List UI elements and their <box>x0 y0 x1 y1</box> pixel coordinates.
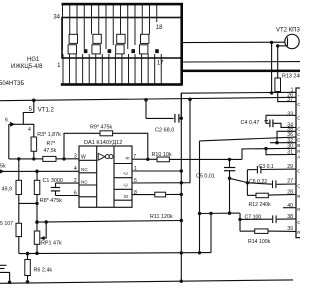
IC pin 40 stub <box>283 207 296 209</box>
long vertical x=181 <box>180 93 182 281</box>
svg-text:C: C <box>297 169 300 175</box>
resistor R13 240 <box>275 78 281 92</box>
svg-text:DA1 К140УД12: DA1 К140УД12 <box>84 140 122 146</box>
resistor R8* 475k chain <box>36 171 38 180</box>
svg-text:R13 240: R13 240 <box>282 74 300 80</box>
svg-text:NC: NC <box>81 167 88 172</box>
svg-text:17: 17 <box>157 61 164 67</box>
resistor R12 240k to pin 28 <box>247 194 256 196</box>
svg-text:47,5k: 47,5k <box>44 148 57 154</box>
bottom bus <box>0 280 293 283</box>
node VT2 drain branch <box>270 41 273 44</box>
C4 0,47 network to pins 33/34 <box>266 115 296 123</box>
svg-text:R: R <box>297 230 300 236</box>
transistor VT2 КП303 <box>285 34 299 48</box>
svg-text:C7 100: C7 100 <box>245 214 262 220</box>
node on pin 1 line <box>270 91 273 94</box>
IC internal labels (cut at edge) <box>297 94 302 237</box>
svg-text:3: 3 <box>74 154 77 160</box>
svg-text:←: ← <box>297 94 300 99</box>
svg-text:C: C <box>297 102 300 108</box>
svg-text:IO: IO <box>124 194 129 199</box>
DA1 pin1 line to x181 <box>132 170 181 172</box>
node VT2 source branch <box>276 44 279 47</box>
svg-text:C: C <box>297 127 300 133</box>
svg-text:R7*: R7* <box>47 141 56 147</box>
IC right pin digits <box>287 111 293 232</box>
svg-text:R: R <box>297 207 300 213</box>
svg-text:C6 0,22: C6 0,22 <box>249 179 267 185</box>
wire VT2 drain down to IC pin 1 line <box>271 42 273 93</box>
svg-text:RP1 47k: RP1 47k <box>41 241 62 247</box>
capacitor C2 68,0 <box>146 100 181 123</box>
svg-text:38: 38 <box>287 214 293 220</box>
display HG1 top feed bus bar <box>62 3 184 6</box>
C7 R14 network <box>239 213 241 231</box>
svg-text:C3 0,1: C3 0,1 <box>259 164 274 170</box>
node VT1.2 drain on bus <box>32 99 36 103</box>
svg-text:C: C <box>297 116 300 122</box>
gate arrowhead <box>10 122 15 127</box>
branch vertical from bus x=190 <box>188 98 192 102</box>
svg-text:R12 240k: R12 240k <box>249 202 272 208</box>
capacitor C6 0,22 to pin 27 <box>247 183 271 184</box>
wire from edge to bottom bus <box>0 272 10 282</box>
svg-text:R: R <box>297 149 300 155</box>
svg-text:5k: 5k <box>0 164 6 170</box>
svg-text:C5 0,01: C5 0,01 <box>196 173 215 179</box>
resistor R6 2,4k <box>27 254 29 260</box>
svg-text:39: 39 <box>287 226 293 232</box>
wires from top bus into display <box>63 5 157 50</box>
svg-text:29: 29 <box>287 164 293 170</box>
big IC left edge (cut off at right) <box>296 88 300 238</box>
svg-text:NC: NC <box>81 179 88 184</box>
main long bus to IC pin 26 <box>0 97 296 100</box>
svg-text:C: C <box>297 132 300 138</box>
resistor R10 10k <box>157 157 169 162</box>
svg-text:m: m <box>126 157 130 162</box>
svg-text:4: 4 <box>74 166 77 172</box>
svg-text:27: 27 <box>287 179 293 185</box>
C3 C6 R12 network <box>246 170 248 196</box>
R9 feedback loop <box>64 133 148 159</box>
svg-text:R8* 475k: R8* 475k <box>40 198 62 204</box>
DA1 pin2 line <box>56 182 80 184</box>
wire display edge to VT2 gate <box>183 41 285 43</box>
capacitor C7 100 to pin 38 <box>240 218 272 220</box>
svg-text:C2 68,0: C2 68,0 <box>155 128 174 134</box>
svg-text:49,9: 49,9 <box>2 187 13 193</box>
display bottom bus bar <box>61 83 183 86</box>
wire VT2 source down to R13 <box>277 46 279 78</box>
link pin30 to pin31 <box>266 149 296 155</box>
svg-text:A: A <box>297 155 300 161</box>
DA1 pin4 line with edge arrow <box>0 170 79 172</box>
transistor VT1.2 (1/2 К504НТ3Б) <box>9 100 34 159</box>
capacitor C1 3000 <box>51 183 60 195</box>
resistor R7* 47,5k <box>43 156 56 161</box>
svg-text:-U: -U <box>123 183 128 188</box>
svg-text:37: 37 <box>287 97 293 103</box>
svg-text:C1 3000: C1 3000 <box>43 178 63 184</box>
svg-text:C4 0,47: C4 0,47 <box>241 120 260 126</box>
svg-text:R14 100k: R14 100k <box>248 239 271 245</box>
svg-text:C: C <box>297 220 300 226</box>
svg-text:5 107: 5 107 <box>0 221 13 227</box>
svg-text:28: 28 <box>287 190 293 196</box>
display HG1 body ИЖКЦ5-4/8 <box>62 18 182 59</box>
supply symbol at left edge (cut) <box>0 264 7 266</box>
bus y=213 <box>200 212 240 214</box>
display right edge thick lead <box>180 3 183 85</box>
svg-text:R10 10k: R10 10k <box>152 152 172 158</box>
resistor R5 107 chain <box>18 203 20 223</box>
svg-text:R9* 475k: R9* 475k <box>90 125 112 131</box>
svg-text:R6 2,4k: R6 2,4k <box>34 267 53 273</box>
svg-text:R3* 1,87k: R3* 1,87k <box>37 132 61 138</box>
pin 35 to 32 link <box>277 131 296 142</box>
resistor R9* 475k <box>100 131 113 136</box>
DA1 pin3 line <box>9 158 79 160</box>
svg-text:VT1.2: VT1.2 <box>38 108 55 114</box>
svg-text:-U: -U <box>123 171 128 176</box>
capacitor C5 0,01 chain <box>224 159 235 213</box>
DA1 pin6 line <box>56 195 80 197</box>
wires from display bottom to bottom bus <box>63 54 161 83</box>
wire VT2 source <box>278 45 287 47</box>
svg-text:31: 31 <box>287 150 293 156</box>
svg-text:VT2 КП303: VT2 КП303 <box>276 28 300 34</box>
jog from R10 line up to IC pin 30 <box>242 148 296 159</box>
DA1 pin7 output line through R10 <box>132 158 157 160</box>
svg-text:C: C <box>297 184 300 190</box>
vertical link x=211 <box>210 213 212 252</box>
svg-text:R11 120k: R11 120k <box>150 214 173 220</box>
svg-text:33: 33 <box>287 111 293 117</box>
svg-text:W: W <box>81 155 86 161</box>
mid bus y=221 <box>37 221 181 223</box>
svg-text:18: 18 <box>156 25 163 31</box>
IC pin36 long line <box>200 137 297 141</box>
svg-text:ИЖКЦ5-4/8: ИЖКЦ5-4/8 <box>11 64 43 70</box>
resistor R14 100k to pin 39 <box>240 230 255 232</box>
IC pin 1 line <box>181 92 296 118</box>
svg-text:R: R <box>297 194 300 200</box>
svg-text:6: 6 <box>5 118 8 124</box>
display digit glyphs <box>68 34 159 54</box>
svg-text:40: 40 <box>287 203 293 209</box>
thick common bus to the right of display <box>182 61 300 63</box>
svg-text:B: B <box>297 143 300 149</box>
link 49,9 bottom to R8 bottom <box>19 202 37 204</box>
bus y=253 <box>19 253 211 254</box>
DA1 op-amp К140УД12 <box>79 146 132 207</box>
svg-text:HG1: HG1 <box>27 57 40 63</box>
svg-text:4: 4 <box>28 127 31 133</box>
resistor 49,9 chain <box>18 159 20 180</box>
resistor R3* 1,87k <box>31 137 36 151</box>
DA1 pin8 line through R11 120k <box>132 194 155 196</box>
svg-text:504НТ3Б: 504НТ3Б <box>0 81 24 87</box>
potentiometer RP1 47k <box>36 222 38 231</box>
capacitor C3 0,1 to pin 29 <box>247 169 256 171</box>
svg-text:34: 34 <box>53 15 60 21</box>
wire R13 to IC pin 37 <box>278 92 296 102</box>
svg-text:D: D <box>297 138 300 144</box>
